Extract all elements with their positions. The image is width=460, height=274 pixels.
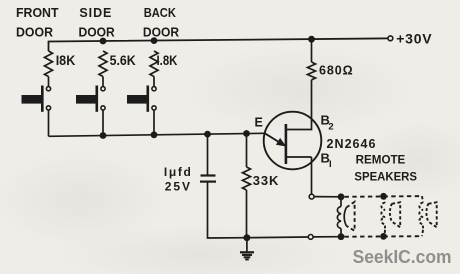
svg-text:SIDE: SIDE (79, 6, 111, 20)
terminal T1 (speaker top) (309, 194, 314, 199)
label B1 (321, 150, 332, 170)
label BACK DOOR (143, 6, 179, 39)
svg-text:+30V: +30V (396, 31, 432, 47)
node K (LS2 top) (380, 193, 387, 200)
wire S3 to bottom rail (153, 110, 155, 135)
svg-text:SPEAKERS: SPEAKERS (354, 172, 417, 184)
svg-text:25V: 25V (165, 180, 190, 194)
watermark SeekIC.com (353, 246, 452, 267)
svg-text:DOOR: DOOR (16, 25, 53, 39)
label REMOTE SPEAKERS (354, 155, 417, 184)
resistor R2 5.6K (99, 51, 136, 77)
ground (240, 238, 254, 260)
wire capacitor bottom lead (208, 182, 247, 238)
switch S2 (side door pushbutton) (76, 86, 105, 112)
node J (LS1 bottom) (338, 233, 345, 240)
svg-text:I: I (329, 159, 332, 170)
label FRONT DOOR (16, 6, 59, 39)
svg-text:2N2646: 2N2646 (327, 137, 376, 151)
node H (ground junction) (243, 234, 250, 241)
wire 680 to B2 (286, 80, 312, 130)
label 2N2646 (327, 137, 376, 151)
label SIDE DOOR (79, 6, 115, 39)
wire R3 to switch S3 (153, 77, 155, 87)
resistor R4 33K (243, 167, 280, 190)
node I (LS1 top) (338, 193, 345, 200)
svg-text:E: E (255, 116, 263, 130)
resistor R5 680 ohm (308, 62, 353, 80)
wire S1 to bottom rail (48, 110, 50, 136)
node B (back door top junction) (151, 37, 158, 44)
wire dashed bottom rail (345, 235, 423, 238)
wire 33K to ground rail (246, 190, 248, 238)
terminal +30V (388, 36, 393, 41)
svg-text:2: 2 (328, 122, 333, 133)
switch S3 (back door pushbutton) (127, 86, 156, 112)
svg-text:33K: 33K (253, 173, 279, 188)
label E (255, 116, 263, 130)
svg-text:DOOR: DOOR (79, 25, 115, 39)
label 1ufd 25V (164, 165, 191, 194)
svg-text:REMOTE: REMOTE (356, 155, 406, 167)
speaker LS3 (dashed) (419, 196, 436, 236)
wire R2 to switch S2 (102, 77, 104, 87)
wire capacitor top lead (207, 134, 209, 175)
svg-text:DOOR: DOOR (143, 25, 179, 39)
node E2 (back door bottom junction) (151, 131, 158, 138)
svg-text:5.6K: 5.6K (110, 52, 136, 68)
wire B1 to terminal (311, 157, 313, 194)
capacitor C1 1ufd 25V (200, 176, 216, 182)
svg-text:BACK: BACK (144, 6, 176, 20)
svg-text:SeekIC.com: SeekIC.com (353, 246, 452, 267)
speaker LS2 (dashed) (381, 196, 400, 236)
wire ground rail to terminal T2 (247, 236, 308, 239)
wire terminal T2 to speaker LS1 (313, 236, 341, 238)
node D (side door bottom junction) (100, 132, 107, 139)
node L (LS2 bottom) (380, 233, 387, 240)
svg-text:680Ω: 680Ω (319, 63, 353, 77)
node C (680 ohm top junction) (308, 36, 315, 43)
svg-text:I.8K: I.8K (157, 52, 178, 68)
node G (emitter junction) (243, 130, 250, 137)
transistor Q1 2N2646 (264, 112, 322, 170)
node A (side door top junction) (100, 38, 107, 45)
switch S1 (front door pushbutton) (22, 86, 51, 112)
svg-text:I8K: I8K (56, 52, 76, 68)
resistor R3 1.8K (150, 51, 177, 77)
terminal T2 (speaker bottom) (308, 235, 313, 240)
label +30V (396, 31, 432, 47)
wire 680 top lead (311, 39, 313, 62)
speaker LS1 (337, 197, 354, 237)
wire terminal T1 to speaker LS1 (314, 196, 341, 198)
wire emitter junction to 33K (246, 134, 248, 168)
svg-text:Iμfd: Iμfd (164, 165, 191, 179)
wire emitter rail (49, 133, 265, 136)
wire dashed top rail (345, 195, 423, 198)
wire S2 to bottom rail (102, 110, 104, 135)
wire R1 to switch S1 (48, 77, 50, 87)
node F (capacitor top junction) (204, 131, 211, 138)
label B2 (321, 112, 334, 132)
svg-text:FRONT: FRONT (16, 6, 59, 20)
wire top supply rail (49, 38, 388, 51)
resistor R1 18K (45, 51, 76, 77)
